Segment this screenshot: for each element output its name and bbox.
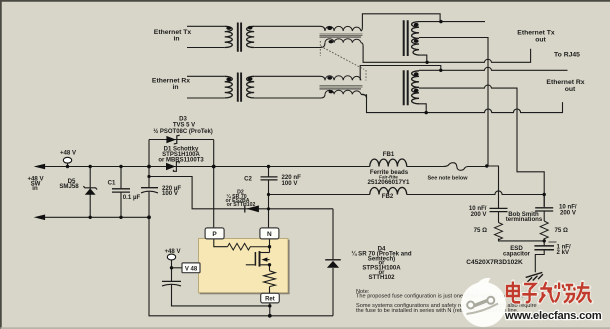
wire Ret to bottom rail [269, 303, 271, 316]
svg-text:in: in [32, 185, 38, 192]
label tick 1nF [549, 241, 557, 243]
svg-text:2 kV: 2 kV [557, 249, 570, 256]
capacitor 220uF 100V polarized [141, 188, 158, 193]
wire +48V terminal stub [67, 163, 69, 167]
wire T4 center-tap lead with hop over V1 to corner [419, 85, 544, 206]
svg-text:2512066017Y1: 2512066017Y1 [368, 179, 411, 186]
TVS diode D3 PSOT08C [166, 135, 179, 144]
wire P line inside box [214, 239, 228, 247]
svg-text:FB1: FB1 [383, 151, 395, 158]
pin box P [205, 228, 224, 239]
PD controller block yellow [199, 239, 290, 295]
wire W2 Ethernet Rx out upper with hop over V1 [419, 67, 568, 70]
svg-text:Ethernet Rx: Ethernet Rx [152, 78, 190, 85]
char shao [555, 283, 575, 303]
char you [577, 282, 592, 302]
wire T1 top left lead [187, 25, 225, 27]
wire Ethernet Rx out lower with hops over V1 and V3 [367, 94, 563, 112]
wire V48 box link [172, 267, 183, 269]
svg-text:+48 V: +48 V [164, 248, 181, 255]
wire L-path to D2 line [149, 177, 333, 209]
svg-text:Ethernet Tx: Ethernet Tx [517, 30, 555, 37]
wire C1 branch [120, 167, 122, 218]
wire W1 Ethernet Tx out lower with hop over V1 [363, 46, 530, 62]
arrow return bottom [34, 215, 45, 221]
wire T3 winding A top lead [419, 21, 485, 23]
choke CM1 core [320, 34, 363, 36]
wire +48V rail top [43, 166, 370, 168]
svg-text:+48 V: +48 V [60, 150, 77, 157]
svg-text:FB2: FB2 [382, 193, 394, 200]
choke CM2 core [320, 85, 363, 87]
diode D2 SR70 [245, 205, 259, 212]
wire T1 top right lead to choke1 [254, 26, 325, 31]
choke CM2 winding a [325, 76, 361, 81]
mosfet Q1 [246, 251, 270, 271]
resistor inside PD box [228, 243, 270, 250]
choke CM2 winding b [320, 89, 367, 98]
svg-text:capacitor: capacitor [503, 251, 531, 258]
wire T1 bottom right lead to choke1 [254, 43, 325, 48]
svg-text:or MBRS1100T3: or MBRS1100T3 [158, 158, 204, 164]
dashed crossover annotation [320, 41, 366, 81]
choke CM1 winding b [320, 37, 364, 46]
char zi [522, 284, 536, 302]
transformer T4 Ethernet Rx out [404, 70, 419, 105]
wire D3 right drop / P branch [213, 140, 215, 229]
char fa [539, 282, 554, 302]
resistor 75ohm branch B [540, 221, 548, 239]
svg-text:in: in [172, 84, 178, 91]
svg-text:out: out [565, 86, 576, 93]
ferrite bead FB2 [370, 187, 407, 194]
svg-text:Ret: Ret [265, 297, 275, 303]
svg-text:100 V: 100 V [282, 180, 299, 187]
label D1 [158, 147, 204, 164]
resistor below mosfet [269, 287, 271, 294]
wire -48V return rail bottom left [43, 216, 149, 218]
wire D3 bypass loop top [149, 139, 214, 141]
svg-text:75 Ω: 75 Ω [555, 227, 568, 234]
svg-text:Ethernet Rx: Ethernet Rx [546, 79, 584, 86]
wire choke2a right end up to corner path [360, 66, 441, 81]
pin box Ret [261, 293, 280, 303]
schottky diode D1 STPS1H100A [166, 162, 179, 172]
capacitor C1 0.1uF [112, 189, 130, 192]
wire T4 winding B bottom lead down [419, 104, 426, 113]
svg-text:SMJ58: SMJ58 [59, 183, 79, 190]
wire T2 bottom right lead to choke2 [254, 94, 325, 98]
ESD capacitor 1nF 2kV [534, 246, 554, 250]
transformer T1 Ethernet Tx in [225, 23, 255, 52]
watermark chinese characters [507, 282, 592, 303]
terminal +48V circle top left [63, 157, 71, 163]
capacitor on V48 branch [162, 281, 181, 286]
wire T2 bottom left lead [187, 97, 225, 99]
label D3 TVS [153, 117, 213, 135]
label D4 [351, 246, 411, 282]
wire rail from FB1 to fuse and junction [407, 166, 444, 168]
svg-text:C4520X7R3D102K: C4520X7R3D102K [466, 259, 523, 266]
svg-text:TVS 5 V: TVS 5 V [173, 123, 195, 129]
svg-text:C1: C1 [108, 180, 116, 187]
svg-text:200 V: 200 V [471, 211, 488, 218]
wire T2 top right lead to choke2 [254, 76, 325, 80]
svg-text:www.elecfans.com: www.elecfans.com [504, 310, 602, 322]
svg-text:½ PSOT08C (ProTek): ½ PSOT08C (ProTek) [153, 128, 213, 135]
wire Bob Smith branch B [535, 195, 544, 273]
svg-text:N: N [267, 231, 272, 238]
svg-text:See note below: See note below [427, 176, 468, 182]
svg-text:V 48: V 48 [185, 266, 198, 272]
note text block [356, 289, 537, 314]
fuse break symbol on rail [444, 163, 487, 171]
capacitor 10nF 200V branch B [535, 208, 553, 211]
wire N line inside PD box [269, 239, 271, 253]
choke CM1 winding a [325, 26, 361, 31]
svg-text:out: out [535, 37, 546, 44]
svg-text:C2: C2 [244, 176, 252, 183]
ferrite bead FB1 [370, 159, 407, 166]
wire D4 branch vertical [332, 209, 334, 316]
arrow +48V SW in top [34, 164, 45, 170]
capacitor C2 220nF [261, 177, 278, 180]
wire 220uF / return branch [149, 140, 333, 316]
wire Bob Smith branch A [487, 166, 544, 241]
svg-text:P: P [212, 231, 217, 238]
pin box N [260, 228, 279, 239]
terminal +48V circle mid left [167, 254, 175, 260]
svg-text:To RJ45: To RJ45 [554, 51, 580, 58]
TVS diode D5 SMJ58 [83, 186, 97, 195]
svg-text:100 V: 100 V [162, 190, 179, 197]
svg-text:or STTH102: or STTH102 [227, 202, 256, 208]
svg-text:terminations: terminations [506, 216, 543, 223]
wire V48 branch [172, 260, 270, 306]
svg-text:75 Ω: 75 Ω [474, 227, 487, 234]
svg-text:200 V: 200 V [560, 210, 577, 217]
transformer T3 Ethernet Tx out [404, 20, 419, 56]
diode D4 vertical [325, 260, 341, 268]
wire D5 branch [89, 167, 91, 218]
capacitor 10nF 200V branch A [490, 208, 508, 211]
svg-text:in: in [173, 36, 179, 43]
wire choke1a right end up to T3 top loop [361, 14, 440, 31]
svg-text:STTH102: STTH102 [368, 274, 395, 281]
wire T3 winding B bottom lead down to W1 [419, 55, 427, 62]
watermark elecfans logo [461, 278, 506, 327]
wire T2 top left lead [187, 75, 225, 77]
svg-text:0.1 µF: 0.1 µF [123, 194, 141, 201]
chassis ground symbol [526, 272, 543, 282]
char dian [507, 282, 520, 303]
pin box V48 [182, 263, 200, 273]
transformer T2 Ethernet Rx in [225, 73, 255, 102]
wire T3 center-tap lead to V1 corner [419, 38, 488, 167]
resistor 75ohm branch A [495, 223, 503, 240]
wire FB2 line from C2 bottom with hop over branch A [269, 191, 545, 195]
wire T1 bottom left lead [187, 47, 225, 49]
label D2 [226, 190, 256, 208]
wire C2 / N branch [268, 167, 270, 229]
